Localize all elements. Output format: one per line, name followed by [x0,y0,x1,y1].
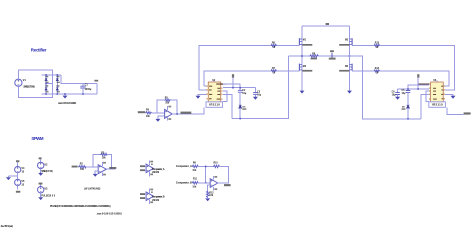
wire U3 input SD [447,108,464,115]
wire DC right vertical [96,84,98,95]
wire U3 COM down [421,94,429,118]
wire top rail Vin [302,25,350,27]
node compB inputs labels [140,193,146,199]
IC U2 IR2110 [207,79,227,102]
wire opamp2 output to U2 [172,108,204,115]
wire bridge top rail [42,74,61,76]
wire U2 pin2 [199,89,207,91]
wire U2 pin1 [204,85,207,87]
svg-text:Comparator_A: Comparator_A [152,168,165,171]
svg-text:R10: R10 [214,162,219,164]
wire gate low left [204,71,299,86]
junction dot feedback out [176,113,178,115]
junction mid right [349,55,351,57]
node +15 label [16,160,19,162]
voltage source V3 [38,185,56,198]
resistor R4 [145,109,151,118]
resistor R6 [271,42,276,49]
ground right leg [347,91,352,94]
node spwm label left [138,111,145,113]
ground summing [205,198,210,201]
wire U2 vss ground [198,94,207,96]
comparator U5 B [146,188,153,204]
wire summing output [218,182,229,184]
node SPWM out label [224,184,231,186]
op-amp U6 summing [210,176,218,191]
node SPWM_A label on wire [181,112,192,114]
capacitor C2 [238,90,247,105]
ground supply mid [6,176,11,180]
node opamp1 out label [109,167,116,169]
svg-text:(W LM741/NS): (W LM741/NS) [84,187,100,190]
diode D6 bootstrap right [402,105,410,119]
wire gate high left [199,45,299,90]
wire bridge AC stub [46,83,52,85]
wire left leg [301,26,303,91]
resistor R2 [78,164,86,172]
wire bridge col1 [45,75,47,94]
resistor R5 feedback [165,97,171,104]
svg-text:10µ: 10µ [242,93,247,95]
ground U2 [196,96,201,99]
wire VS return left [232,56,289,119]
capacitor C3 [253,88,262,97]
junction dots driver right [407,88,419,119]
wire U2 VCC row [223,87,255,89]
ground rectifier [63,94,68,99]
capacitor C5 [402,90,411,105]
wire opamp2 input [152,112,165,114]
wire opamp2 plus input [158,116,165,119]
transistor M3 [299,64,312,72]
node compA inputs labels [140,165,146,171]
capacitor C1 [80,84,92,95]
capacitor C6 [392,89,400,97]
resistor R7 [271,68,276,75]
wire U3 vss ground [445,94,453,95]
node Vin label [94,80,98,82]
wire opamp1 feedback left [93,155,100,167]
resistor R11 [192,179,198,189]
node -15 label [16,191,20,193]
svg-text:R12: R12 [209,192,214,194]
svg-text:LM339: LM339 [152,200,160,202]
ground V3 [38,197,43,200]
resistor R13 [374,42,379,49]
IC U3 IR2110 [418,79,445,102]
node VCC flag right [417,74,419,77]
wire summing row A [198,165,213,167]
wire gate low right [352,71,449,86]
wire opamp1 input [86,166,98,168]
node SPWM_B label right [464,112,471,114]
ground U3 [451,96,456,99]
wire U3 VB row [408,85,429,90]
wire VCC right [417,78,419,89]
junction mid left [301,55,303,57]
svg-text:10µ: 10µ [402,93,407,95]
transistor M2 [339,38,352,46]
op-amp U1 [98,162,106,176]
wire opamp1 output [106,168,115,170]
wire opamp1 plus input [95,171,98,174]
svg-text:PULSE(0 5 0 0.00003333s 0.0000: PULSE(0 5 0 0.00003333s 0.00003333s 0 0.… [50,205,111,208]
transistor M1 [299,38,312,46]
wire gate high right [352,45,455,90]
svg-text:1000µ: 1000µ [85,88,92,91]
wire U2 VB row [223,84,240,90]
voltage source V4 [15,162,25,173]
node Vin rail label [326,23,329,25]
resistor R14 [374,67,379,75]
svg-text:10µ: 10µ [392,95,397,97]
svg-text:R13: R13 [375,42,380,44]
svg-text:R14: R14 [375,67,380,70]
node VCC flag left [232,74,234,77]
svg-text:.tran 0 0.5 0.3 0.0001: .tran 0 0.5 0.3 0.0001 [58,102,77,105]
wire V1 top [18,70,52,98]
svg-text:SINE(0 4 50): SINE(0 4 50) [41,170,53,173]
op-amp U7 [165,106,173,121]
wire summing feedback [218,166,229,183]
svg-text:V1: V1 [23,78,27,82]
junction dots driver left [232,87,241,120]
ground opamp2 [155,119,160,122]
svg-text:Rectifier: Rectifier [31,47,47,52]
wire U2 VS hook [223,91,227,102]
wire mid rail left [289,55,310,57]
resistor R3 feedback [100,152,107,159]
ground C6 [395,97,400,100]
wire bridge col2 [56,75,58,94]
svg-text:.tran 0 0.06 0.02 0.00001: .tran 0 0.06 0.02 0.00001 [96,213,122,216]
resistor R9 [192,162,198,172]
svg-text:SINE(0 170 60): SINE(0 170 60) [23,87,35,89]
node summing junction [205,166,207,182]
wire supply mid [8,175,17,177]
svg-text:IR2110: IR2110 [209,103,220,107]
svg-text:10µ: 10µ [257,95,262,97]
comparator U4 A [146,160,153,176]
svg-text:.four 50 V(out): .four 50 V(out) [0,225,13,228]
resistor R8 load [310,53,319,59]
wire opamp1 feedback right [107,155,111,170]
svg-text:PULSE(0 5 0: PULSE(0 5 0 [41,196,56,198]
wire summing plus input [208,185,211,191]
junction dots bridge [45,74,83,95]
svg-text:Comparator_B: Comparator_B [152,196,165,199]
diode D4 [56,85,60,92]
wire U3 VS hook [426,91,429,102]
ground opamp1 [93,174,98,177]
wire opamp2 feedback right [171,100,178,114]
svg-text:R11: R11 [193,179,198,181]
node Vout probe flag [329,50,336,59]
wire summing row B [198,182,210,184]
ground C3 [253,97,258,100]
svg-text:LM339: LM339 [152,172,160,174]
node Vsin label [39,157,42,159]
label IR2110 box left [206,102,223,108]
node Vtri label [39,183,43,185]
diode D2 [45,85,49,92]
voltage source V5 [15,173,25,190]
node Vsin_in label [72,166,78,168]
diode D5 bootstrap left [239,105,247,118]
ground left leg [300,91,305,94]
diode D1 [45,76,49,83]
resistor R10 feedback [213,162,220,167]
transistor M4 [339,64,352,72]
wire U3 VCC row [398,88,429,90]
wire bridge bottom rail [42,93,98,95]
wire DC+ rail [61,75,97,84]
wire opamp2 feedback left [157,100,165,113]
svg-text:SPWM: SPWM [31,136,44,141]
wire right leg [349,26,351,91]
voltage source V1 [15,78,35,89]
wire U2 COM down [223,94,232,118]
wire mid rail center [319,55,350,57]
voltage source V2 [38,159,53,173]
diode D3 [56,76,60,83]
ground V2 [38,173,43,176]
svg-text:Comparator_B: Comparator_B [176,181,192,184]
svg-text:Comparator_A: Comparator_A [176,165,192,168]
wire mid rail right ext [350,56,422,119]
resistor R12 vertical [207,191,215,198]
svg-text:IR2110: IR2110 [432,103,443,107]
wire VCC left [232,78,234,88]
label IR2110 box right [429,102,446,108]
